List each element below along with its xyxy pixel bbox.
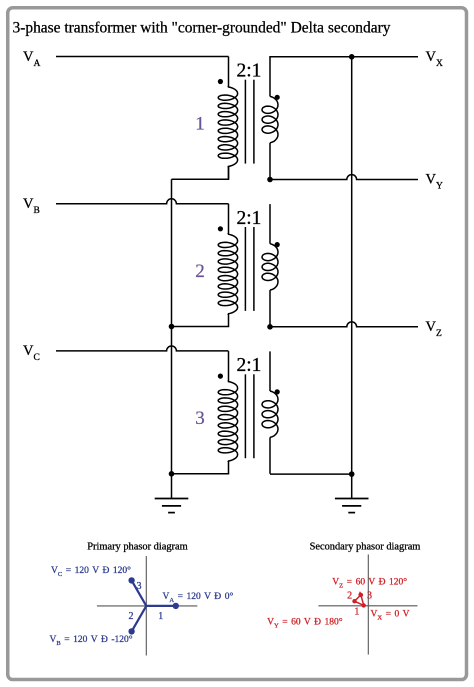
transformer T1 primary polarity dot: [218, 79, 223, 84]
junction grounded corner: [349, 471, 355, 477]
ground secondary corner: [335, 474, 369, 512]
wire T1 primary bottom to neutral: [172, 178, 230, 180]
transformer T1 secondary winding: [262, 57, 278, 179]
junction X corner on V_X wire: [349, 54, 355, 60]
svg-text:2:1: 2:1: [236, 61, 261, 82]
svg-text:Secondary phasor diagram: Secondary phasor diagram: [310, 541, 421, 552]
secondary phasor axes: [318, 554, 417, 654]
wire T3 secondary bottom to grounded corner: [270, 473, 352, 475]
secondary delta triangle windings: [355, 595, 364, 606]
junction neutral/T3 primary: [169, 471, 175, 477]
transformer T1 primary winding: [218, 57, 238, 180]
svg-text:1: 1: [354, 607, 359, 618]
wire T2 primary bottom to neutral: [172, 326, 230, 328]
transformer T3 primary polarity dot: [218, 374, 223, 379]
wire secondary series bus X to ground: [351, 57, 353, 474]
wire V_Y output: [270, 175, 418, 180]
transformer T2 secondary winding: [262, 204, 278, 326]
wire T1 primary bottom drop: [227, 166, 230, 179]
wire V_Z output: [270, 322, 418, 327]
svg-text:2: 2: [347, 591, 352, 602]
ground primary neutral: [155, 474, 189, 513]
wire primary neutral bus: [171, 179, 173, 474]
phasor V_A: [146, 603, 179, 609]
wire T3 primary bottom to neutral: [172, 473, 230, 475]
transformer T3 core: [245, 374, 254, 458]
junction neutral/T2 primary: [169, 324, 175, 330]
svg-text:1: 1: [158, 611, 163, 622]
svg-text:3: 3: [195, 408, 205, 429]
secondary delta corner dots: [352, 593, 366, 608]
svg-text:3-phase transformer with "corn: 3-phase transformer with "corner-grounde…: [13, 19, 391, 36]
svg-text:Primary phasor diagram: Primary phasor diagram: [87, 541, 187, 552]
wire V_B input: [56, 199, 229, 204]
phasor V_C: [128, 577, 146, 606]
svg-text:3: 3: [137, 581, 142, 592]
junction V_Z tap: [267, 324, 273, 330]
transformer T3 secondary winding: [262, 351, 278, 473]
svg-text:2:1: 2:1: [236, 355, 261, 376]
wire V_X output: [269, 56, 418, 58]
svg-text:1: 1: [195, 114, 205, 135]
transformer T3 primary winding: [218, 351, 238, 474]
transformer T3 secondary polarity dot: [275, 389, 280, 394]
svg-text:3: 3: [367, 591, 372, 602]
wire V_A input: [56, 56, 229, 58]
transformer T2 primary winding: [218, 204, 238, 327]
phasor V_B: [128, 606, 146, 635]
transformer T2 secondary polarity dot: [275, 242, 280, 247]
junction V_Y tap: [267, 177, 273, 183]
transformer T1 core: [245, 80, 254, 164]
wire V_C input: [56, 346, 229, 351]
svg-text:2: 2: [195, 261, 205, 282]
transformer T2 core: [245, 227, 254, 311]
secondary delta arrowhead at Z: [358, 591, 363, 595]
transformer T2 primary polarity dot: [218, 226, 223, 231]
svg-text:2:1: 2:1: [236, 208, 261, 229]
transformer T1 secondary polarity dot: [275, 95, 280, 100]
primary phasor axes: [97, 556, 197, 656]
svg-text:2: 2: [129, 611, 134, 622]
